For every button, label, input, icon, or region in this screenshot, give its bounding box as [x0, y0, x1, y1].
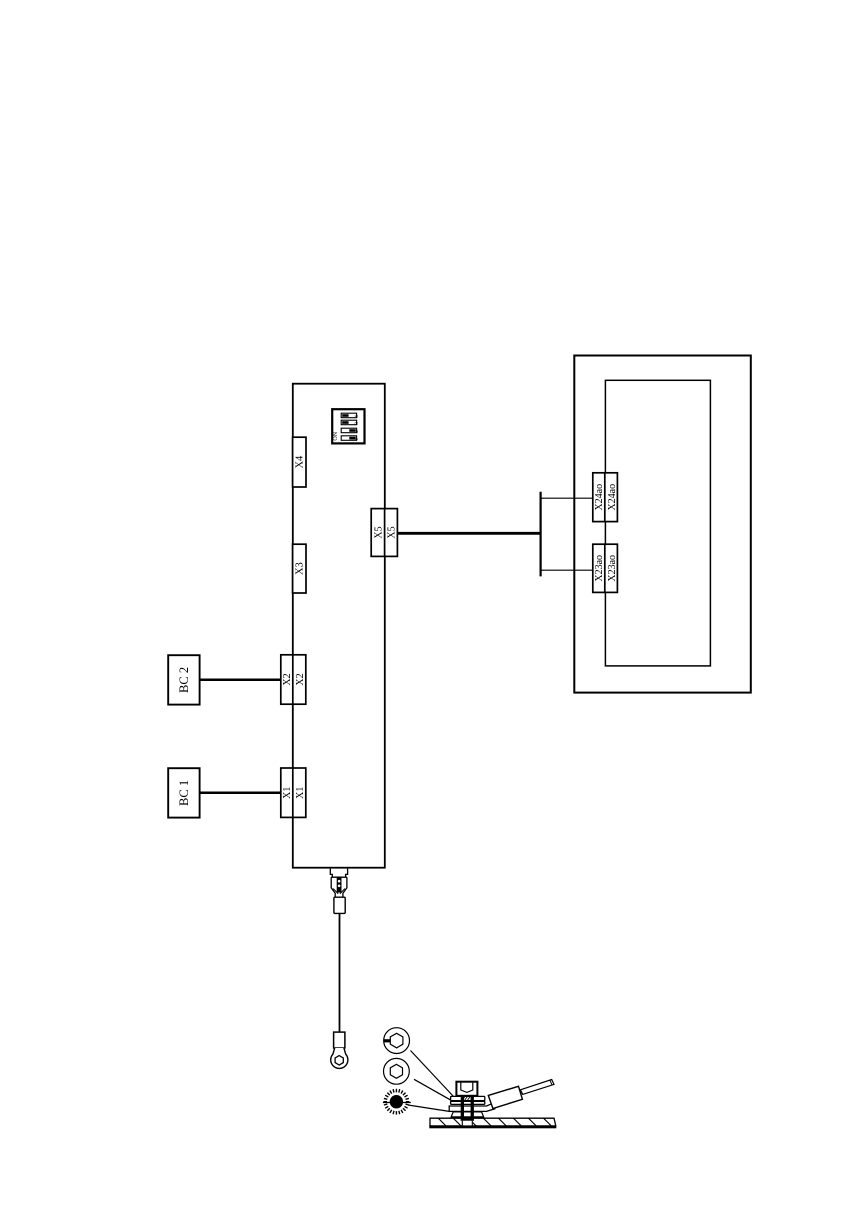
- svg-text:X4: X4: [295, 455, 306, 469]
- DIP switch slot 1: [341, 436, 360, 441]
- svg-text:1: 1: [354, 438, 360, 441]
- faston terminal at unit bottom: tab: [330, 869, 347, 878]
- svg-text:X3: X3: [295, 562, 306, 575]
- svg-text:4: 4: [354, 415, 360, 418]
- star washer top view teeth: [384, 1089, 410, 1115]
- connector X23ao (double): [593, 544, 618, 592]
- wire to X24ao: [541, 497, 593, 499]
- cable end cap: [550, 1080, 552, 1085]
- wire to X23ao: [541, 569, 593, 571]
- bolt top view mark: [383, 1039, 390, 1042]
- star washer axis line: [383, 1102, 411, 1104]
- connector X3: [293, 544, 306, 593]
- svg-text:X24ao: X24ao: [607, 484, 618, 511]
- svg-text:BC 1: BC 1: [177, 780, 191, 806]
- washer 1 side view: [451, 1096, 485, 1100]
- ring terminal hex hole: [335, 1056, 343, 1065]
- lug tongue: [449, 1103, 495, 1111]
- ring terminal crimp: [334, 1032, 345, 1048]
- bolt tip below plate: [462, 1121, 472, 1126]
- bolt head recess: [461, 1082, 473, 1092]
- svg-text:X2: X2: [295, 673, 306, 685]
- washer 2 side view: [451, 1101, 485, 1104]
- faston terminal crimp barrel: [334, 897, 345, 913]
- svg-text:BC 2: BC 2: [177, 667, 191, 693]
- connector X4: [293, 437, 306, 487]
- svg-text:X24ao: X24ao: [594, 484, 605, 511]
- cable X5 to cabinet (thick): [397, 532, 540, 535]
- wire BC1 to X1: [200, 791, 282, 794]
- faston terminal inner chamfers: [333, 889, 345, 894]
- chassis plate with hatching: [423, 1118, 557, 1128]
- leader line from star washer view: [408, 1105, 450, 1112]
- faston terminal female body: [331, 877, 347, 897]
- leader line from bolt view: [411, 1051, 454, 1097]
- leader line from washer view: [414, 1079, 452, 1101]
- svg-text:X23ao: X23ao: [607, 555, 618, 582]
- box BC 2: [168, 655, 199, 704]
- DIP switch slot 2: [341, 428, 360, 433]
- bolt hole gap in plate: [462, 1119, 473, 1125]
- svg-text:X2: X2: [282, 673, 293, 685]
- star washer side view: [451, 1112, 483, 1117]
- lug barrel (angled): [488, 1086, 522, 1108]
- washer top view hex hole: [390, 1064, 402, 1078]
- faston terminal centre blade: [337, 877, 342, 892]
- cable split bus bar: [539, 492, 541, 577]
- washer 1 hatch mark: [462, 1097, 470, 1100]
- connector X24ao (double): [593, 473, 618, 522]
- cable to lug (angled): [520, 1080, 554, 1095]
- control unit main rectangle: [293, 384, 385, 868]
- svg-text:X1: X1: [282, 787, 293, 799]
- svg-text:X5: X5: [373, 526, 384, 538]
- bolt top view hex: [390, 1033, 403, 1048]
- connector X1 (double): [281, 768, 306, 817]
- star washer top view body: [390, 1095, 403, 1108]
- ring terminal ring: [331, 1048, 348, 1069]
- svg-text:ON: ON: [333, 431, 339, 440]
- DIP switch S1 body: [332, 409, 364, 443]
- washer top view circle: [384, 1058, 410, 1084]
- DIP switch slot 3: [341, 420, 360, 425]
- svg-text:3: 3: [354, 422, 360, 425]
- svg-text:X1: X1: [295, 787, 306, 799]
- bolt shank threads: [461, 1096, 464, 1121]
- DIP switch slot 4: [341, 413, 360, 418]
- cabinet outer rectangle: [574, 356, 751, 693]
- bolt side view head: [456, 1082, 477, 1096]
- ground wire: [339, 913, 341, 1032]
- svg-text:X5: X5: [387, 526, 398, 538]
- connector X5 (double): [371, 509, 397, 557]
- svg-text:X23ao: X23ao: [594, 555, 605, 582]
- cabinet inner rectangle: [605, 380, 710, 666]
- svg-text:2: 2: [354, 430, 360, 433]
- connector X2 (double): [281, 655, 306, 704]
- box BC 1: [168, 768, 199, 817]
- wire BC2 to X2: [200, 678, 282, 681]
- bolt top view circle: [384, 1028, 410, 1054]
